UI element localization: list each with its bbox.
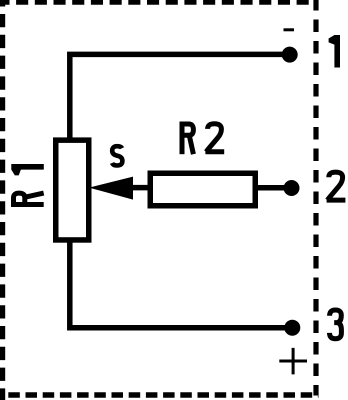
terminal 1 label xyxy=(329,35,340,68)
wiper arrow s xyxy=(89,177,133,200)
dashed enclosure border: bottom xyxy=(0,392,319,398)
label R1: letter R (rotated) xyxy=(11,193,44,204)
wire: R1 top to terminal 1 xyxy=(70,54,290,141)
wire: wiper arrow to R2 xyxy=(130,185,152,191)
wire: R1 bottom to terminal 3 xyxy=(70,240,292,328)
resistor R1 (potentiometer body) xyxy=(56,140,89,240)
label R2: letter R xyxy=(182,122,193,155)
resistor R2 xyxy=(150,173,255,206)
label R2: digit 2 xyxy=(205,124,224,152)
terminal 3 label xyxy=(330,310,342,339)
terminal 2 label xyxy=(327,172,346,200)
dashed enclosure border: top xyxy=(0,0,319,5)
terminal 2 dot xyxy=(284,180,300,196)
minus sign at terminal 1 xyxy=(284,28,295,31)
dashed enclosure border: right xyxy=(313,0,318,396)
plus sign at terminal 3 xyxy=(279,348,307,375)
terminal 3 dot xyxy=(284,320,300,336)
label s xyxy=(112,146,122,165)
wire: R2 to terminal 2 xyxy=(254,185,292,191)
terminal 1 dot xyxy=(282,47,298,63)
dashed enclosure border: left xyxy=(0,0,5,400)
label R1: digit 1 (rotated) xyxy=(11,164,44,175)
